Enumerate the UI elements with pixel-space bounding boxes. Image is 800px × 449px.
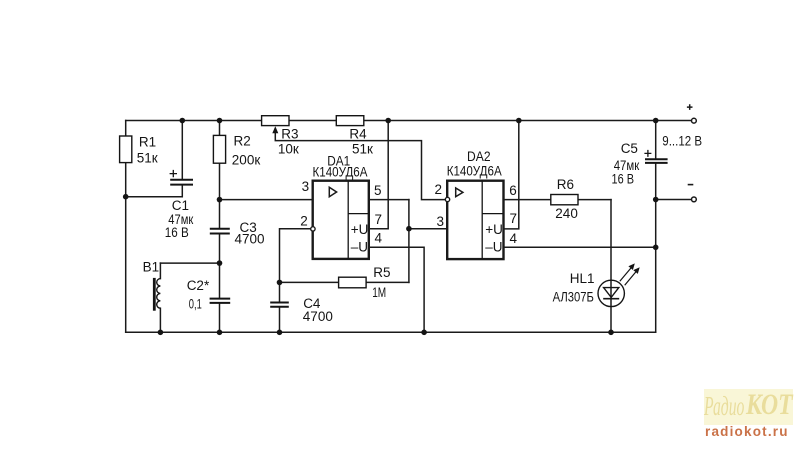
- svg-text:3: 3: [436, 214, 444, 229]
- svg-text:7: 7: [510, 211, 518, 226]
- junction bottom rail C4: [277, 330, 283, 336]
- resistor R4: [336, 116, 364, 126]
- svg-text:R3: R3: [281, 127, 298, 142]
- wire B1 top to C3/C2 node: [160, 262, 219, 264]
- op-amp DA1 box: [313, 181, 369, 259]
- junction top rail C5: [653, 118, 659, 124]
- LED HL1 emission arrow 1: [620, 263, 635, 281]
- wire bottom rail: [126, 331, 656, 333]
- svg-text:10к: 10к: [278, 141, 299, 156]
- wire B1 column top: [159, 263, 161, 279]
- svg-text:B1: B1: [143, 260, 160, 275]
- junction B1/C3/C2 node: [217, 260, 223, 266]
- LED HL1 cathode bar: [603, 298, 619, 300]
- op-amp DA2 box: [447, 181, 503, 259]
- svg-text:240: 240: [555, 206, 578, 221]
- wire C4 column: [279, 282, 281, 332]
- svg-text:–U: –U: [351, 239, 368, 254]
- op-amp DA2 inverting input circle pin2: [445, 197, 449, 201]
- svg-text:5: 5: [374, 183, 382, 198]
- LED HL1 circle: [598, 280, 624, 306]
- junction top rail DA1 pin7: [385, 118, 391, 124]
- wire left rail through R1: [125, 121, 127, 333]
- junction bottom rail B1: [158, 330, 164, 336]
- svg-text:1М: 1М: [372, 285, 386, 300]
- wire LED column: [610, 200, 612, 333]
- svg-text:200к: 200к: [232, 153, 261, 168]
- svg-text:К140УД6А: К140УД6А: [447, 164, 502, 179]
- wire pin5 vertical down to R5: [408, 200, 410, 283]
- svg-text:7: 7: [375, 212, 383, 227]
- wire DA1 pin 4 to bottom rail: [369, 247, 424, 332]
- svg-text:+U: +U: [351, 222, 369, 237]
- capacitor C2 plates: [210, 299, 231, 303]
- microphone B1 core bar: [153, 278, 156, 311]
- wire DA1 pin 2 to C4 node: [280, 229, 311, 283]
- svg-text:16 В: 16 В: [612, 171, 635, 186]
- watermark РадиоКОТ: [704, 389, 793, 425]
- resistor R2: [213, 135, 225, 163]
- junction C5/DA2pin4 node: [653, 245, 659, 251]
- potentiometer R3 wiper arrow: [272, 126, 278, 133]
- wire R2 column from rail to node: [219, 121, 221, 200]
- junction bottom rail C2: [217, 330, 223, 336]
- capacitor C3 plates: [210, 229, 230, 234]
- wire DA2 pin 4 to C5 column: [504, 246, 656, 248]
- svg-text:16 В: 16 В: [165, 225, 189, 240]
- resistor R6: [551, 195, 578, 205]
- svg-text:2: 2: [300, 214, 308, 229]
- capacitor C5 plates: [645, 159, 668, 163]
- wire DA1 pin 7 to top rail: [369, 121, 388, 229]
- label minus sign: [688, 184, 694, 186]
- svg-text:R2: R2: [234, 133, 251, 148]
- LED HL1 emission arrow 2: [625, 267, 640, 285]
- junction pin5/R5/DA2pin3 node: [406, 226, 412, 232]
- op-amp DA1 triangle: [329, 187, 336, 196]
- svg-text:R1: R1: [139, 135, 156, 150]
- wire node to DA2 pin 3: [409, 228, 447, 230]
- junction bottom rail DA1 pin4: [421, 330, 427, 336]
- svg-text:2: 2: [435, 182, 443, 197]
- svg-text:C5: C5: [621, 141, 638, 156]
- svg-text:4: 4: [375, 231, 383, 246]
- svg-text:К140УД6А: К140УД6А: [313, 165, 368, 180]
- resistor R5: [339, 277, 367, 288]
- junction bottom rail LED: [608, 330, 614, 336]
- potentiometer R3 body: [262, 116, 289, 126]
- svg-text:9...12 В: 9...12 В: [662, 134, 702, 149]
- svg-text:DA2: DA2: [467, 149, 491, 164]
- svg-text:3: 3: [302, 179, 310, 194]
- junction top rail R2: [217, 118, 223, 124]
- wire C1 bottom stub to R1 node: [126, 185, 183, 197]
- junction top rail C1: [180, 118, 186, 124]
- junction R2/C3/pin3 node: [217, 197, 223, 203]
- wire minus terminal: [656, 199, 691, 201]
- op-amp DA2 divider: [482, 181, 503, 259]
- svg-text:0,1: 0,1: [189, 297, 202, 312]
- svg-text:51к: 51к: [137, 150, 158, 165]
- op-amp DA2 triangle: [456, 188, 463, 197]
- capacitor C4 plates: [270, 303, 289, 307]
- microphone B1 coil: [157, 279, 161, 309]
- capacitor C1 plates: [170, 180, 193, 185]
- svg-text:HL1: HL1: [570, 271, 595, 286]
- wire top supply rail: [126, 120, 691, 122]
- svg-text:4700: 4700: [303, 309, 333, 324]
- svg-text:+U: +U: [485, 222, 503, 237]
- watermark radiokot.ru: [705, 424, 789, 439]
- junction C5/minus node: [653, 197, 659, 203]
- svg-text:АЛ307Б: АЛ307Б: [553, 290, 594, 305]
- plus terminal: [692, 118, 697, 123]
- svg-text:R5: R5: [373, 265, 390, 280]
- resistor R1: [120, 136, 132, 163]
- wire C5 column top: [655, 121, 657, 159]
- wire DA2 pin 7 to top rail: [504, 121, 519, 229]
- C5 polarity plus: [644, 150, 651, 157]
- minus terminal: [692, 197, 697, 202]
- svg-text:4: 4: [510, 231, 518, 246]
- junction top rail DA2 pin7: [516, 118, 522, 124]
- op-amp DA1 inverting input circle pin2: [311, 227, 315, 231]
- wire C2 column: [219, 263, 221, 332]
- svg-text:4700: 4700: [235, 232, 265, 247]
- wire DA2 pin 6 to R6 to LED column: [504, 199, 612, 201]
- wire R5 row C4 node to pin5 vertical: [280, 281, 409, 283]
- wire C1 top from rail: [181, 121, 183, 180]
- wire B1 column bottom: [159, 308, 161, 332]
- wire C5 column bottom: [655, 164, 657, 332]
- C1 polarity plus: [170, 170, 177, 177]
- svg-text:R6: R6: [557, 177, 574, 192]
- svg-text:C1: C1: [172, 198, 189, 213]
- wire DA1 pin 5 out: [369, 199, 409, 201]
- op-amp DA1 divider: [348, 181, 369, 259]
- svg-text:C2*: C2*: [187, 278, 210, 293]
- svg-text:51к: 51к: [352, 141, 373, 156]
- junction pin2/C4/R5 node: [277, 280, 283, 286]
- LED HL1 triangle: [604, 288, 619, 298]
- svg-text:6: 6: [509, 183, 517, 198]
- wire C3 column: [219, 200, 221, 264]
- junction node R1/C1: [123, 194, 129, 200]
- label plus sign: [687, 104, 693, 110]
- wire node R2 to DA1 pin 3: [220, 199, 313, 201]
- svg-text:–U: –U: [485, 239, 502, 254]
- wire R3 wiper to DA2 pin 2: [275, 130, 444, 200]
- svg-text:R4: R4: [349, 127, 367, 142]
